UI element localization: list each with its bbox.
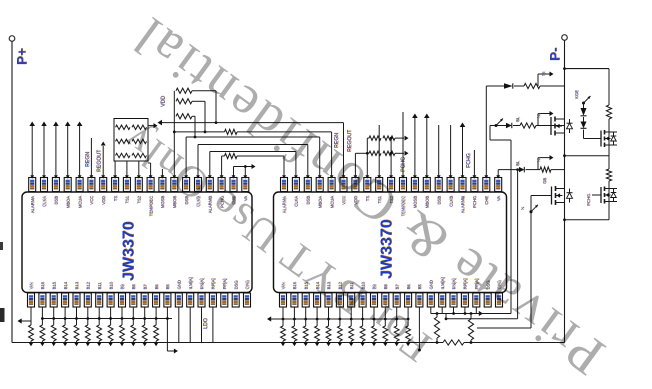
resistor gate drive <box>540 167 551 172</box>
arrow into bus <box>315 342 320 346</box>
svg-text:B6: B6 <box>406 284 411 290</box>
wire to bus <box>305 341 307 343</box>
resistor cell2 10 <box>383 326 388 341</box>
U1 bottom pin 19 <box>232 293 239 307</box>
wire U2 bottom pin2 down <box>293 307 295 326</box>
wire to bus <box>407 341 409 343</box>
wire cell tap B15 with up arrow <box>43 126 45 178</box>
resistor row 3b <box>132 153 147 157</box>
svg-text:KGE: KGE <box>574 90 579 99</box>
wire U1 bottom pin10 down <box>132 307 134 325</box>
wire rows connector U2 pin10 <box>390 138 392 177</box>
resistor cell 12 <box>154 325 159 341</box>
svg-text:DSB: DSB <box>54 196 59 205</box>
wire 531 to network <box>477 327 531 329</box>
svg-text:BL: BL <box>515 160 520 166</box>
svg-text:TS: TS <box>113 196 118 202</box>
U2 top pin 5 <box>328 178 335 192</box>
svg-text:ILM[A]: ILM[A] <box>188 277 193 289</box>
source stub <box>605 201 618 203</box>
node junction <box>41 317 44 320</box>
resistor gate drive <box>520 123 536 128</box>
U2 bottom pin 19 <box>484 293 491 307</box>
diode in driver line <box>504 83 513 88</box>
svg-text:B12: B12 <box>86 281 91 289</box>
wire cell tap B16 with up arrow <box>31 126 33 178</box>
arrow into bus <box>349 342 354 346</box>
svg-text:MOSB: MOSB <box>160 196 165 209</box>
U1 bottom pin 17 <box>209 293 216 307</box>
resistor row2 a <box>369 151 381 155</box>
svg-text:NI: NI <box>541 72 546 76</box>
transistor MOSFET gate bar <box>551 187 553 205</box>
svg-text:PCHG: PCHG <box>472 196 477 208</box>
wire cell1 jog down <box>489 126 491 141</box>
svg-text:DSB: DSB <box>436 196 441 205</box>
resistor right column A <box>606 105 611 119</box>
svg-text:REGOUT: REGOUT <box>97 149 103 172</box>
node junction <box>384 318 387 321</box>
svg-text:FCHG: FCHG <box>466 153 472 168</box>
U2 bottom pin 7 <box>348 293 355 307</box>
svg-text:VIN: VIN <box>29 283 34 290</box>
drain stub <box>605 188 618 190</box>
U2 top pin 10 <box>388 178 395 192</box>
arrow network right <box>479 311 483 316</box>
U1 bottom pin 20 <box>244 293 251 307</box>
node riser518 top <box>516 168 519 171</box>
svg-text:NI: NI <box>536 114 541 118</box>
resistor cell 4 <box>63 325 68 341</box>
wire U2 bottom pin11 down <box>396 307 398 326</box>
U1 top pin 11 <box>147 178 154 192</box>
wire L6 right <box>237 155 284 157</box>
wire to bus <box>76 341 78 343</box>
resistor cell2 6 <box>338 326 343 341</box>
arrow into bus <box>51 342 56 346</box>
wire U2 pin16 riser with up arrow <box>462 127 464 178</box>
svg-text:B9: B9 <box>120 284 125 290</box>
node junction <box>407 318 410 321</box>
wire bus to right column top <box>565 68 610 70</box>
MOSFET substrate arrow <box>556 195 563 197</box>
U2 top pin 19 <box>495 178 502 192</box>
U2 top pin 4 <box>316 178 323 192</box>
resistor cell2 9 <box>372 326 377 341</box>
resistor cell2 11 <box>394 326 399 341</box>
wire riser 511 down <box>510 140 512 314</box>
node junction <box>86 317 89 320</box>
wire box to U1 pin9 <box>126 161 128 178</box>
arrow into bus <box>120 342 125 346</box>
U1 bottom pin 15 <box>187 293 194 307</box>
wire U2 pin14 riser <box>438 125 440 178</box>
wire U2 pin11 riser <box>402 112 404 178</box>
wire diode to resistor <box>513 125 520 127</box>
resistor network box <box>114 119 148 162</box>
node junction <box>132 317 135 320</box>
wire riser 518 down <box>517 170 519 319</box>
U2 bottom pin 17 <box>461 293 468 307</box>
wire network second line <box>446 318 518 320</box>
wire to bus <box>64 341 66 343</box>
arrow left at U1 pin1 <box>22 320 32 322</box>
wire U2 bottom pin1 down <box>282 307 284 326</box>
wire U1 bottom pin4 down <box>64 307 66 325</box>
U1 top pin 14 <box>183 178 190 192</box>
svg-text:VDD: VDD <box>161 96 167 107</box>
diode chain A <box>583 103 585 108</box>
wire L1 with left arrow <box>162 122 344 124</box>
wire to bus <box>132 341 134 343</box>
svg-text:B6: B6 <box>154 284 159 290</box>
node junction <box>52 317 55 320</box>
resistor cell 2 <box>40 325 45 341</box>
resistor row 1b <box>132 125 147 129</box>
wire REGN stub <box>90 138 92 178</box>
wire U1 pin13 down with arrow <box>166 307 168 351</box>
node junction <box>327 318 330 321</box>
wire to bus <box>282 341 284 343</box>
U2 bottom pin 8 <box>359 293 366 307</box>
IC U2 JW3370 body <box>274 192 507 293</box>
U2 top pin 11 <box>400 178 407 192</box>
wire driver line <box>486 85 504 87</box>
svg-text:ALARMA: ALARMA <box>282 196 287 213</box>
U2 top pin 7 <box>352 178 359 192</box>
node RV2-L2 <box>204 131 207 134</box>
terminal P- <box>562 35 568 41</box>
U2 bottom pin 12 <box>405 293 412 307</box>
wire row2 <box>355 152 369 154</box>
svg-text:PP[A]: PP[A] <box>222 279 227 290</box>
bent arrow chain A <box>582 102 585 105</box>
wire U1 bottom pin11 down <box>144 307 146 325</box>
U2 bottom pin 1 <box>280 293 287 307</box>
MOSFET channel segments <box>555 186 557 191</box>
U2 bottom pin 13 <box>416 293 423 307</box>
svg-text:CHG: CHG <box>245 280 250 289</box>
wire cell tap B12 with up arrow <box>79 126 81 178</box>
MOSFET drain stub <box>555 118 565 120</box>
U1 bottom pin 18 <box>221 293 228 307</box>
wire RV3 right <box>192 115 195 117</box>
arrow into bus <box>394 342 399 346</box>
wire to bus <box>144 341 146 343</box>
U2 top pin 13 <box>423 178 430 192</box>
arrow into bus <box>281 342 286 346</box>
channel segments <box>604 187 606 192</box>
U1 bottom pin 1 <box>28 293 35 307</box>
U1 top pin 19 <box>242 178 249 192</box>
node junction <box>155 317 158 320</box>
wire U1 bottom pin7 down <box>98 307 100 325</box>
IC U1 JW3370 body <box>22 192 252 293</box>
wire to bus <box>41 341 43 343</box>
wire Q2 gate vertical down <box>530 196 532 329</box>
svg-text:TS1: TS1 <box>125 195 130 203</box>
node junction <box>98 317 101 320</box>
svg-text:LDO: LDO <box>203 318 209 329</box>
node pin19 tie <box>244 165 247 168</box>
svg-text:CLKA: CLKA <box>294 196 299 207</box>
resistor cell 8 <box>108 325 113 341</box>
wire U2 bottom pin18 to network <box>475 307 477 314</box>
wire U2 bottom pin3 down <box>305 307 307 326</box>
U2 bottom pin 3 <box>302 293 309 307</box>
wire U2 bottom pin12 down <box>407 307 409 326</box>
wire row2 riser U2 pin7 <box>354 153 356 177</box>
wire diode to resistor <box>514 85 524 87</box>
wire to bus <box>53 341 55 343</box>
svg-text:VIN: VIN <box>281 283 286 290</box>
node junction <box>64 317 67 320</box>
U2 top pin 2 <box>292 178 299 192</box>
arrow to bus <box>537 74 539 86</box>
svg-text:CLKA: CLKA <box>42 196 47 207</box>
terminal P+ <box>9 36 15 42</box>
resistor row 3a <box>116 153 131 157</box>
wire to bus <box>328 341 330 343</box>
svg-text:TEMPDEC: TEMPDEC <box>148 196 153 216</box>
body diode <box>611 193 617 198</box>
U2 top pin 3 <box>304 178 311 192</box>
arrow into bus <box>383 342 388 346</box>
node junction <box>282 318 285 321</box>
resistor cell 10 <box>131 325 136 341</box>
node connector row2 <box>390 152 393 155</box>
resistor RV1 <box>176 88 192 93</box>
U2 bottom pin 5 <box>325 293 332 307</box>
resistor RV2 <box>176 99 192 104</box>
wire L4 <box>197 145 199 178</box>
wire U1 bottom pin5 down <box>76 307 78 325</box>
MOSFET substrate arrow <box>555 125 562 127</box>
U1 bottom pin 12 <box>153 293 160 307</box>
U1 top pin 13 <box>171 178 178 192</box>
U1 top pin 1 <box>29 178 36 192</box>
wire cell tap B14 with up arrow <box>55 126 57 178</box>
resistor row 2a <box>116 139 131 143</box>
resistor cell2 1 <box>281 326 286 341</box>
wire to bus <box>87 341 89 343</box>
node junction <box>304 318 307 321</box>
wire driver line <box>490 125 506 127</box>
U1 top pin 18 <box>230 178 237 192</box>
node junction <box>109 317 112 320</box>
node RV3-L3 <box>194 136 197 139</box>
node pin13 <box>166 317 169 320</box>
arrow left U2 <box>267 316 271 321</box>
svg-text:B14: B14 <box>63 281 68 289</box>
arrow into bus <box>108 342 113 346</box>
wire P- bus vertical <box>564 40 566 342</box>
watermark line Private Confidential <box>120 4 616 388</box>
wire REGOUT stub with arrow <box>102 146 104 178</box>
U1 bottom pin 4 <box>62 293 69 307</box>
node RV1-L1 <box>215 121 218 124</box>
arrow into bus <box>63 342 68 346</box>
wire to bus <box>362 341 364 343</box>
resistor on L2 <box>225 129 238 134</box>
svg-text:VA: VA <box>496 196 501 201</box>
arrow into bus <box>40 342 45 346</box>
resistor row1 a <box>369 136 381 140</box>
wire driver line <box>498 169 519 171</box>
U2 bottom pin 15 <box>439 293 446 307</box>
resistor cell 3 <box>51 325 56 341</box>
wire cell tap B13 with up arrow <box>67 126 69 178</box>
wire row1 <box>367 137 369 139</box>
U1 bottom pin 2 <box>39 293 46 307</box>
wire U1 bottom pin17 plain <box>212 307 214 343</box>
U2 bottom pin 11 <box>393 293 400 307</box>
svg-text:B13: B13 <box>74 281 79 289</box>
transistor gate bar <box>600 187 602 203</box>
resistor on L6 <box>225 153 238 158</box>
drain stub <box>605 131 618 133</box>
wire U1 bottom pin14 plain <box>178 307 180 343</box>
arrow into bus <box>326 342 331 346</box>
U1 bottom pin 9 <box>119 293 126 307</box>
svg-text:PCHG: PCHG <box>586 194 591 206</box>
U1 top pin 17 <box>218 178 225 192</box>
wire U1 bottom pin9 down <box>121 307 123 325</box>
wire box to U1 pin8 <box>114 161 116 178</box>
svg-text:B11: B11 <box>97 282 102 290</box>
wire U2 bottom pin17 to network <box>464 307 466 314</box>
watermark line For BYT Use Only <box>111 114 440 373</box>
svg-text:B7: B7 <box>394 284 399 290</box>
diode in driver line <box>506 123 512 128</box>
wire resistor to bus/gate <box>536 125 565 127</box>
wire U2 bottom pin6 down <box>339 307 341 326</box>
wire U1 bottom pin6 down <box>87 307 89 325</box>
wire diode to resistor <box>526 169 541 171</box>
U2 bottom pin 20 <box>496 293 503 307</box>
wire row1 arrow <box>395 137 404 139</box>
wire to bus <box>155 341 157 343</box>
U2 top pin 8 <box>364 178 371 192</box>
svg-text:BL: BL <box>515 116 520 122</box>
node junction <box>143 317 146 320</box>
wire U2 junction line <box>271 318 409 320</box>
wire box to U1 pin10 <box>138 161 140 178</box>
node junction <box>316 318 319 321</box>
wire U1 bottom pin16 plain <box>201 307 203 343</box>
arrow out of resistor box <box>148 125 154 127</box>
bent arrow NI node <box>530 210 533 213</box>
svg-text:B5: B5 <box>417 284 422 290</box>
wire U2 bottom pin7 down <box>350 307 352 326</box>
wire L6 <box>221 156 223 178</box>
wire mid rung <box>565 155 610 157</box>
node nl <box>436 341 439 344</box>
wire U2 pin13 stub <box>418 307 420 350</box>
node connector row1 <box>390 137 393 140</box>
MOSFET body diode <box>569 119 571 123</box>
U1 top pin 10 <box>135 178 142 192</box>
wire P+ rail down <box>11 41 13 342</box>
node network <box>436 312 439 315</box>
resistor RV3 <box>176 114 192 119</box>
U2 bottom pin 16 <box>450 293 457 307</box>
wire L3 <box>185 137 187 178</box>
node junction <box>75 317 78 320</box>
wire Q2 gate lead <box>531 195 552 197</box>
node junction <box>121 317 124 320</box>
U2 bottom pin 6 <box>336 293 343 307</box>
edge mark 2 <box>0 242 3 250</box>
U1 top pin 6 <box>88 178 95 192</box>
wire low rung <box>565 219 610 221</box>
resistor cell 1 <box>29 325 34 341</box>
node junction <box>361 318 364 321</box>
wire resistor to bus/gate <box>551 169 565 171</box>
source stub <box>605 144 618 146</box>
node bus low <box>563 218 566 221</box>
arrow into bus <box>85 342 90 346</box>
U2 bottom pin 4 <box>314 293 321 307</box>
wire U2 bottom pin14 to network <box>430 307 432 314</box>
resistor cell2 3 <box>303 326 308 341</box>
transistor MOSFET gate bar <box>550 117 552 135</box>
arrow into bus <box>406 342 411 346</box>
U1 top pin 7 <box>100 178 107 192</box>
wire to bus <box>30 341 32 343</box>
U1 bottom pin 3 <box>50 293 57 307</box>
node row2 cross <box>366 152 369 155</box>
wire driver input riser <box>485 86 487 178</box>
arrow into bus <box>154 342 159 346</box>
node nr <box>470 341 473 344</box>
U2 top pin 14 <box>435 178 442 192</box>
node junction <box>293 318 296 321</box>
U1 bottom pin 16 <box>198 293 205 307</box>
arrow into bus <box>142 342 147 346</box>
svg-text:EN[A]: EN[A] <box>199 279 204 290</box>
resistor right column B <box>606 169 611 181</box>
resistor cell2 5 <box>326 326 331 341</box>
wire U2 bottom pin10 down <box>384 307 386 326</box>
arrow into bus <box>360 342 365 346</box>
wire U2 pin12 riser with up arrow <box>414 118 416 178</box>
U1 top pin 4 <box>64 178 71 192</box>
svg-text:B16: B16 <box>40 281 45 289</box>
U1 bottom pin 13 <box>164 293 171 307</box>
wire L5 <box>209 152 211 178</box>
U1 bottom pin 7 <box>96 293 103 307</box>
wire U1 bottom pin1 down <box>30 307 32 325</box>
wire to bus <box>293 341 295 343</box>
U2 top pin 1 <box>281 178 288 192</box>
wire row2 arrow <box>395 152 404 154</box>
wire right column upper <box>608 69 610 105</box>
wire U1 bottom pin12 down <box>155 307 157 325</box>
MOSFET source stub <box>556 202 565 204</box>
resistor cell 6 <box>85 325 90 341</box>
wire right column lower <box>608 181 610 220</box>
wire U2 bottom pin15 to network <box>441 307 443 314</box>
node junction <box>373 318 376 321</box>
arrow into bus <box>337 342 342 346</box>
node junction <box>350 318 353 321</box>
node Q2 gate vertical <box>530 210 533 213</box>
pin junction arrowheads <box>30 175 34 178</box>
U2 bottom pin 2 <box>291 293 298 307</box>
wire U2 pin15 riser <box>450 125 452 178</box>
resistor gate drive <box>524 83 540 88</box>
